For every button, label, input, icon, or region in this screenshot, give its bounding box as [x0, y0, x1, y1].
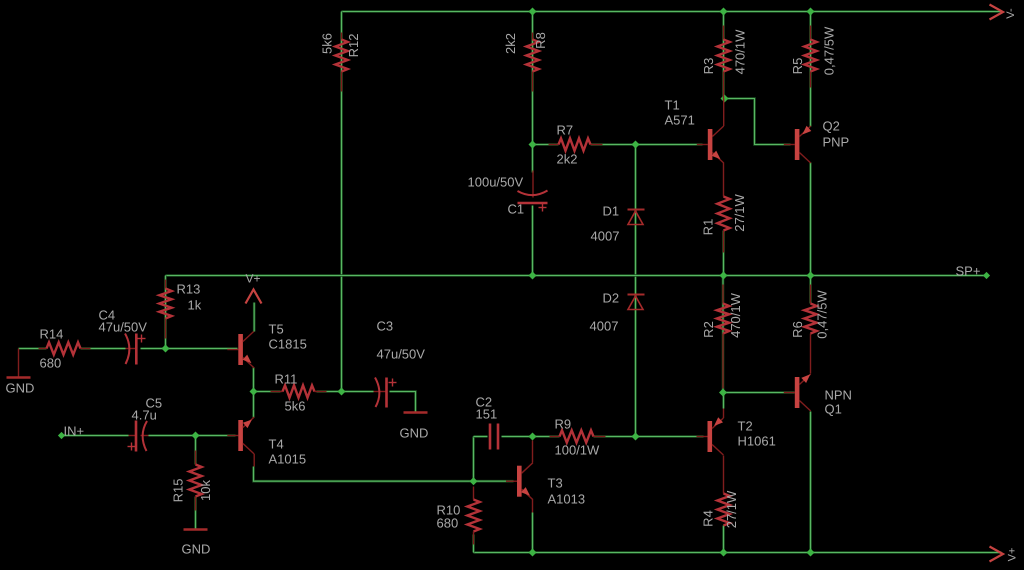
svg-text:R13: R13 — [177, 282, 201, 297]
svg-text:470/1W: 470/1W — [732, 29, 747, 75]
svg-text:470/1W: 470/1W — [728, 292, 743, 338]
wire R6 to Q1 emitter pin — [810, 334, 812, 374]
svg-text:Q2: Q2 — [823, 119, 840, 134]
wire T2/Q1 base node to Q1 — [723, 391, 795, 394]
svg-text:680: 680 — [437, 516, 459, 531]
wire T2 emitter pin up to node — [722, 393, 725, 409]
wire T1 emitter to R1 — [723, 163, 725, 197]
node SP+ terminal — [983, 272, 990, 279]
wire R7 to D1 node — [591, 143, 636, 146]
resistor R8 2k2 — [503, 32, 548, 91]
node SP+ / C1 — [529, 272, 537, 280]
capacitor C1 100u/50V — [468, 171, 548, 217]
svg-text:R6: R6 — [790, 321, 805, 338]
wire R2 column — [722, 276, 725, 393]
svg-text:R12: R12 — [346, 34, 361, 58]
transistor T1 A571 — [665, 98, 724, 164]
transistor T2 H1061 — [697, 417, 776, 455]
transistor T4 A1015 — [227, 417, 306, 467]
svg-text:R8: R8 — [533, 32, 548, 49]
node R12 / R11 / C3 — [338, 388, 346, 396]
wire R5 column top — [809, 12, 812, 127]
svg-text:R14: R14 — [40, 327, 64, 342]
wire C1 column lower to SP+ rail — [531, 206, 534, 276]
svg-text:100/1W: 100/1W — [555, 443, 601, 458]
node R9 / D2 / T2 base — [632, 433, 640, 441]
svg-text:V+: V+ — [246, 272, 261, 286]
diode D1 4007 — [591, 204, 645, 244]
wire C5 to T4 base node — [149, 434, 236, 437]
svg-text:GND: GND — [6, 381, 35, 396]
svg-text:T5: T5 — [269, 322, 284, 337]
node R2 / T2 emitter / Q1 base — [719, 389, 727, 397]
wire T4 collector down and right to T3 base — [254, 467, 514, 482]
wire R9 to D2 node — [594, 435, 636, 438]
svg-text:R15: R15 — [170, 479, 185, 503]
node V- rail / R3 — [720, 8, 728, 16]
wire T2 collector to R4 — [723, 456, 725, 494]
node T5 emitter / R11 / T4 — [250, 388, 258, 396]
svg-text:680: 680 — [40, 356, 62, 371]
svg-text:Q1: Q1 — [825, 402, 842, 417]
wire C4 to T5 base node — [141, 347, 238, 350]
wire R1 to SP+ rail — [722, 231, 725, 276]
wire D2 node to T2 base — [636, 435, 704, 438]
wire T3 collector up to R9 node — [532, 441, 534, 463]
resistor R1 27/1W — [700, 193, 747, 252]
svg-text:R11: R11 — [275, 372, 298, 387]
wire R15 column — [194, 436, 197, 465]
node V+ rail / T3 emitter — [529, 549, 537, 557]
node SP+ / R1 / R2 — [720, 272, 728, 280]
node C1 / R7 / R8 — [529, 141, 537, 149]
svg-text:5k6: 5k6 — [319, 33, 334, 54]
svg-text:T1: T1 — [665, 98, 680, 113]
wire Q2 collector to SP+ rail — [809, 163, 812, 276]
wire R3 column top — [722, 12, 725, 99]
transistor Q2 PNP — [784, 119, 849, 164]
svg-text:5k6: 5k6 — [285, 399, 306, 414]
svg-text:47u/50V: 47u/50V — [377, 347, 426, 362]
transistor T5 C1815 — [227, 322, 307, 369]
svg-text:4.7u: 4.7u — [132, 408, 157, 423]
svg-text:R7: R7 — [557, 123, 574, 138]
capacitor C5 4.7u — [128, 396, 163, 452]
wire bias node to R7 — [533, 143, 559, 146]
wire V+ bottom rail — [474, 551, 1002, 554]
resistor R12 5k6 — [319, 33, 361, 92]
wire R10 column to V+ rail — [472, 535, 475, 553]
resistor R10 680 — [437, 487, 480, 545]
svg-text:V+: V+ — [1006, 548, 1018, 562]
diode D2 4007 — [590, 291, 645, 334]
net port V- top right — [990, 5, 1017, 20]
svg-text:T3: T3 — [548, 476, 563, 491]
wire R15 to GND3 — [194, 497, 197, 529]
svg-text:T2: T2 — [738, 419, 753, 434]
node R13 / C4 / T5 base — [162, 345, 170, 353]
svg-text:27/1W: 27/1W — [724, 490, 739, 528]
svg-text:0,47/5W: 0,47/5W — [821, 26, 836, 75]
svg-text:1k: 1k — [188, 298, 202, 313]
capacitor C2 151 — [476, 395, 499, 450]
svg-text:GND: GND — [182, 542, 211, 557]
wire R4 to V+ rail — [722, 526, 725, 553]
svg-text:C3: C3 — [377, 319, 394, 334]
svg-text:27/1W: 27/1W — [732, 193, 747, 231]
capacitor C3 47u/50V — [374, 319, 426, 408]
transistor T3 A1013 — [506, 463, 585, 507]
svg-text:A571: A571 — [665, 113, 695, 128]
svg-text:10k: 10k — [198, 480, 213, 501]
svg-text:R3: R3 — [701, 58, 716, 75]
node C2 / R9 / T3 collector — [529, 433, 537, 441]
node V+ rail / R4 — [720, 549, 728, 557]
wire T3 emitter pin — [532, 500, 534, 513]
wire R12 column net — [340, 12, 343, 392]
resistor R3 470/1W — [701, 26, 748, 99]
resistor R9 100/1W — [550, 417, 606, 458]
wire R9 node to R9 — [533, 435, 560, 438]
svg-text:0,47/5W: 0,47/5W — [815, 290, 830, 339]
node IN+ terminal — [58, 432, 65, 439]
svg-text:2k2: 2k2 — [503, 33, 518, 54]
svg-text:R4: R4 — [700, 510, 715, 527]
svg-text:GND: GND — [400, 426, 429, 441]
capacitor C4 47u/50V — [99, 308, 148, 365]
node V- rail / R5 — [807, 8, 815, 16]
svg-text:47u/50V: 47u/50V — [99, 320, 148, 335]
resistor R4 27/1W — [700, 490, 739, 528]
wire R8/C1 column top — [531, 12, 534, 145]
resistor R13 1k — [159, 280, 201, 339]
resistor R15 10k — [170, 451, 213, 511]
svg-text:A1013: A1013 — [548, 492, 586, 507]
svg-text:100u/50V: 100u/50V — [468, 175, 524, 190]
wire IN+ to C5 — [62, 434, 129, 437]
svg-text:H1061: H1061 — [738, 434, 776, 449]
node SP+ / Q2 / R6 — [807, 272, 815, 280]
ground GND1 (R14) — [6, 349, 35, 396]
svg-text:151: 151 — [476, 407, 498, 422]
node T4 / C2 / R10 / T3 base — [470, 477, 478, 485]
svg-text:A1015: A1015 — [269, 452, 307, 467]
resistor R7 2k2 — [549, 123, 603, 167]
svg-text:D1: D1 — [603, 204, 620, 219]
wire R12 node to C3 — [342, 390, 374, 393]
svg-text:R9: R9 — [555, 417, 572, 432]
svg-text:4007: 4007 — [590, 319, 619, 334]
resistor R11 5k6 — [271, 372, 327, 414]
ground GND3 (R15) — [182, 530, 211, 557]
wire diode column D1-D2 — [634, 145, 637, 437]
node R7 / D1 / T1 base — [632, 141, 640, 149]
resistor R14 680 — [39, 327, 91, 371]
node R3 / T1 collector / Q2 base — [721, 95, 729, 103]
wire T1 base from bias node — [636, 143, 703, 146]
wire R14 to C4 — [81, 347, 126, 350]
wire C2 left lead — [474, 435, 488, 438]
wire GND1 to R14 — [19, 347, 47, 350]
wire C1 column upper — [531, 145, 534, 173]
wire Q1 collector to V+ rail — [809, 412, 812, 553]
svg-text:C1815: C1815 — [269, 337, 307, 352]
wire R11 node to R11 — [254, 390, 281, 393]
svg-text:R1: R1 — [700, 219, 715, 236]
svg-text:R5: R5 — [790, 58, 805, 75]
wire R6 column — [809, 276, 812, 304]
svg-text:IN+: IN+ — [64, 424, 85, 439]
wire T3 emitter down to V+ rail — [531, 513, 534, 553]
wire C2 right to R9 node — [502, 435, 533, 438]
wire R11 to R12 column node — [317, 390, 342, 393]
resistor R5 0,47/5W — [790, 26, 837, 88]
svg-text:D2: D2 — [603, 291, 620, 306]
node V- rail / R8 — [529, 8, 537, 16]
resistor R2 470/1W — [701, 285, 743, 389]
node V+ rail / Q1 collector — [807, 549, 815, 557]
svg-text:T4: T4 — [269, 437, 284, 452]
transistor Q1 NPN — [784, 374, 852, 417]
wire T5 emitter down to R11 node — [252, 368, 255, 392]
svg-text:PNP: PNP — [823, 135, 850, 150]
svg-text:4007: 4007 — [591, 229, 620, 244]
ground GND2 (C3) — [400, 413, 429, 441]
svg-text:V-: V- — [1005, 8, 1017, 19]
svg-text:NPN: NPN — [825, 388, 852, 403]
svg-text:2k2: 2k2 — [557, 152, 578, 167]
wire V- top rail — [342, 10, 1002, 13]
wire SP+ rail — [166, 274, 987, 277]
wire R3 node to Q2 base — [725, 99, 791, 145]
supply symbol V+ (T5 collector) — [246, 272, 262, 332]
resistor R6 0,47/5W — [790, 285, 830, 339]
wire T4 collector pin — [253, 454, 255, 467]
svg-text:R2: R2 — [701, 321, 716, 338]
wire C2 branch down to T3 base net — [472, 437, 475, 482]
wire T4 emitter up to R11 node — [252, 392, 255, 418]
svg-text:SP+: SP+ — [956, 264, 981, 279]
node C5 / R15 / T4 base — [192, 432, 200, 440]
net port V+ bottom right — [990, 547, 1019, 562]
wire C3 to GND2 — [390, 392, 416, 412]
svg-text:C1: C1 — [508, 202, 525, 217]
wire R13 column — [164, 276, 167, 349]
